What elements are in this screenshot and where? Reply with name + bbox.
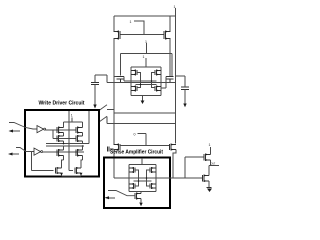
- wire word line: [107, 82, 176, 84]
- wire PC to gate rail: [134, 21, 144, 35]
- transistor M13 wd r3 left: [57, 149, 64, 157]
- wire left cap stub: [95, 75, 107, 83]
- transistor M15a wd r4 left: [56, 167, 62, 174]
- transistor M17 sense pass right: [170, 144, 177, 151]
- wire out stage gate link: [184, 157, 186, 178]
- transistor M14 wd r3 right: [76, 149, 83, 157]
- svg-text:1: 1: [143, 55, 145, 59]
- wire sense top rail: [129, 164, 156, 166]
- wire VDD to left precharge transistor: [113, 16, 115, 32]
- wire cell right gate connector: [152, 73, 156, 88]
- transistor M10 wd r1 right: [76, 127, 83, 134]
- transistor M3 cell upper left: [131, 70, 137, 76]
- transistor M24 out lower: [203, 175, 210, 183]
- buffer U1: [37, 126, 44, 133]
- wire right long vertical: [175, 8, 177, 144]
- transistor M12 wd r2 right: [76, 135, 83, 142]
- svg-text:out: out: [211, 162, 216, 166]
- wire SE lead: [138, 134, 147, 146]
- wire cell left column: [130, 67, 132, 96]
- switch S2: [99, 116, 107, 122]
- wire cell vdd stub: [145, 58, 147, 67]
- wire B2 write line: [107, 123, 176, 125]
- wire wd vdd feed: [71, 118, 73, 123]
- wire access to cell right node: [165, 77, 167, 89]
- arrow sense enable: [107, 197, 115, 199]
- ground arrow right cap: [183, 104, 186, 108]
- capacitor C1 left: [91, 82, 99, 84]
- svg-text:1: 1: [209, 143, 211, 147]
- transistor M8 right access: [166, 77, 174, 83]
- wire sense pass gate line: [120, 145, 170, 147]
- wire wd gate line r2: [53, 130, 76, 139]
- switch S1: [99, 105, 107, 111]
- transistor M4 cell lower left: [131, 86, 137, 92]
- wire wd r4 left gate: [32, 152, 54, 171]
- wire sense bottom rail: [129, 191, 156, 193]
- transistor M11 wd r2 left: [57, 135, 64, 142]
- wire wd top rail: [64, 121, 83, 123]
- wire input1 kink: [9, 123, 37, 130]
- svg-text:0: 0: [134, 133, 136, 137]
- wire right bypass: [173, 150, 176, 179]
- wire sense left column: [128, 165, 130, 192]
- ground sense tail: [140, 199, 142, 203]
- wire out stage gate upper: [185, 156, 204, 158]
- arrow word line into box: [94, 85, 96, 105]
- wire bit line BL: [113, 39, 115, 145]
- transistor M2 right precharge: [164, 31, 171, 40]
- wire sense cross short: [134, 180, 152, 182]
- wire sense left gate connector: [135, 170, 139, 186]
- transistor M6 cell lower right: [155, 86, 161, 92]
- arrow input2: [11, 153, 20, 155]
- transistor M19 sense lower left: [129, 183, 135, 189]
- wire sense right gate connector: [147, 170, 151, 186]
- ground mark wd right: [80, 173, 83, 176]
- wire wd mid rail b: [46, 145, 84, 147]
- box write driver: [25, 110, 99, 177]
- wire sense right column: [155, 165, 157, 192]
- wire wd mid rail a: [46, 143, 89, 145]
- wire wd buffer1 gate line: [46, 128, 76, 131]
- wire cell cross couple lower: [136, 84, 157, 86]
- capacitor C2 right: [181, 87, 189, 89]
- wire cell bottom rail: [131, 95, 161, 97]
- svg-text:Sense Amplifier Circuit: Sense Amplifier Circuit: [110, 150, 163, 156]
- transistor M21 sense lower right: [150, 183, 156, 189]
- ground cell: [142, 96, 144, 101]
- wire sense tail: [140, 192, 142, 194]
- wire cell left gate connector: [137, 73, 141, 88]
- svg-text:1: 1: [71, 114, 73, 118]
- wire sense vdd stub: [141, 158, 143, 165]
- transistor M5 cell upper right: [155, 70, 161, 76]
- transistor M16 sense pass left b: [108, 147, 114, 152]
- ground mark wd left: [60, 173, 63, 176]
- wire wd buffer2 gate line: [43, 151, 84, 153]
- transistor M18 sense upper left: [129, 167, 135, 173]
- wire sense cross long: [114, 177, 170, 179]
- transistor M15 sense pass left: [114, 144, 121, 151]
- transistor M9 wd r1 left: [57, 127, 64, 134]
- wire VDD to right precharge transistor: [169, 16, 171, 32]
- transistor M15b wd r4 right: [75, 167, 81, 174]
- wire input2 kink: [16, 148, 34, 152]
- wire precharge gate rail: [120, 34, 164, 36]
- transistor M23 out upper: [204, 154, 211, 162]
- box sense amplifier: [104, 158, 170, 209]
- wire right cap stub: [176, 75, 186, 77]
- transistor M1 left precharge: [114, 31, 121, 40]
- wire B1 read line: [114, 112, 176, 114]
- wire wd center vertical: [68, 111, 70, 171]
- wire access to cell left node: [123, 77, 125, 82]
- arrow input1: [11, 130, 20, 132]
- ground out stage: [207, 187, 212, 189]
- svg-text:Write Driver Circuit: Write Driver Circuit: [39, 101, 85, 107]
- wire wd bottom rail: [62, 175, 82, 177]
- wire cell top net: [121, 43, 172, 77]
- wire wd right vertical: [88, 111, 90, 144]
- node VDD top rail: [114, 15, 176, 17]
- transistor M7 left access: [117, 77, 125, 83]
- wire cell cross couple upper: [124, 80, 157, 82]
- svg-text:1: 1: [130, 20, 132, 24]
- wire BL to access: [114, 76, 117, 78]
- wire cell right node stub: [161, 87, 166, 89]
- wire sense enable kink: [108, 191, 135, 196]
- transistor M20 sense upper right: [150, 167, 156, 173]
- ground arrow left cap: [93, 105, 96, 109]
- buffer U2: [34, 148, 41, 155]
- wire BL into sense box: [113, 150, 115, 179]
- wire wd r4 right gate: [69, 170, 73, 172]
- wire cell top rail: [131, 66, 161, 68]
- wire blade1 contact: [107, 109, 114, 111]
- wire bit line BLB: [169, 39, 171, 77]
- wire out stage gate lower: [170, 177, 202, 179]
- wire out node: [209, 165, 219, 167]
- wire cell right column: [160, 67, 162, 96]
- transistor M22 sense tail: [135, 193, 141, 200]
